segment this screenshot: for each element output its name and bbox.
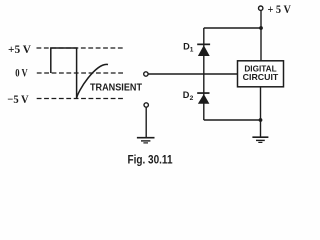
svg-text:−5 V: −5 V (7, 94, 29, 106)
svg-text:+5 V: +5 V (8, 44, 32, 56)
svg-text:CIRCUIT: CIRCUIT (243, 72, 279, 82)
svg-text:+ 5 V: + 5 V (268, 2, 292, 16)
svg-text:2: 2 (190, 95, 194, 102)
svg-text:TRANSIENT: TRANSIENT (90, 83, 142, 94)
svg-text:0 V: 0 V (15, 68, 28, 80)
svg-text:Fig. 30.11: Fig. 30.11 (128, 153, 173, 166)
svg-text:1: 1 (190, 46, 194, 53)
